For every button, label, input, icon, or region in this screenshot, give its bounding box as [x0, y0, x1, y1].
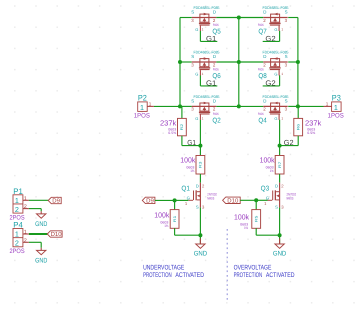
- svg-text:PROTECTION: PROTECTION: [234, 272, 263, 279]
- svg-text:G: G: [195, 116, 198, 121]
- svg-text:Q7: Q7: [258, 28, 267, 35]
- svg-text:0.5%: 0.5%: [307, 131, 315, 135]
- svg-text:S: S: [191, 10, 194, 15]
- svg-text:0.5%: 0.5%: [168, 131, 176, 135]
- svg-text:R7: R7: [278, 162, 282, 168]
- svg-text:NMOS: NMOS: [287, 196, 294, 200]
- svg-text:1: 1: [202, 72, 204, 76]
- svg-text:1%: 1%: [270, 169, 274, 173]
- svg-text:D: D: [263, 99, 266, 104]
- svg-text:100k: 100k: [154, 211, 169, 220]
- svg-text:G: G: [274, 71, 277, 76]
- svg-text:1: 1: [15, 230, 19, 239]
- svg-text:FDD4685L-F085: FDD4685L-F085: [263, 50, 289, 54]
- svg-text:PMOS: PMOS: [258, 68, 264, 72]
- svg-text:G2: G2: [265, 34, 275, 43]
- svg-text:FDD4685L-F085: FDD4685L-F085: [263, 6, 289, 10]
- svg-text:D10: D10: [227, 198, 239, 205]
- svg-text:D: D: [275, 184, 278, 189]
- svg-text:FDD4685L-F085: FDD4685L-F085: [194, 95, 220, 99]
- svg-text:GND: GND: [194, 251, 208, 258]
- svg-text:G1: G1: [187, 138, 196, 147]
- svg-text:D: D: [263, 10, 266, 15]
- svg-text:Q6: Q6: [212, 73, 221, 80]
- svg-text:GND: GND: [35, 258, 47, 265]
- svg-text:ACTIVATED: ACTIVATED: [266, 272, 295, 279]
- svg-text:2: 2: [15, 205, 19, 214]
- svg-text:FDD4685L-F085: FDD4685L-F085: [194, 6, 220, 10]
- svg-text:1: 1: [326, 101, 329, 106]
- svg-text:PMOS: PMOS: [213, 23, 219, 27]
- svg-text:2: 2: [24, 238, 27, 244]
- svg-text:P3: P3: [332, 94, 341, 103]
- svg-text:G: G: [274, 27, 277, 32]
- svg-text:100k: 100k: [180, 156, 195, 165]
- svg-text:Q8: Q8: [258, 73, 267, 80]
- svg-text:237k: 237k: [160, 118, 177, 127]
- svg-text:P4: P4: [13, 221, 23, 230]
- svg-text:OVERVOLTAGE: OVERVOLTAGE: [234, 265, 272, 272]
- svg-text:1: 1: [281, 28, 283, 32]
- svg-text:1: 1: [281, 72, 283, 76]
- svg-text:1: 1: [149, 101, 152, 106]
- svg-text:GND: GND: [35, 221, 47, 228]
- svg-text:NMOS: NMOS: [207, 196, 214, 200]
- svg-text:D10: D10: [51, 231, 63, 238]
- svg-text:FDD4685L-F085: FDD4685L-F085: [194, 50, 220, 54]
- svg-text:R3: R3: [199, 162, 203, 168]
- svg-text:1POS: 1POS: [134, 113, 150, 120]
- svg-text:S: S: [196, 204, 199, 209]
- svg-text:R1: R1: [173, 216, 177, 222]
- svg-text:1POS: 1POS: [328, 113, 344, 120]
- svg-text:D: D: [263, 54, 266, 59]
- svg-text:1: 1: [24, 230, 27, 236]
- svg-text:1%: 1%: [244, 226, 248, 230]
- svg-text:S: S: [191, 99, 194, 104]
- svg-text:D: D: [213, 99, 216, 104]
- svg-text:G1: G1: [206, 34, 216, 43]
- svg-text:G: G: [195, 71, 198, 76]
- svg-text:100k: 100k: [234, 213, 249, 222]
- svg-text:2: 2: [15, 239, 19, 248]
- svg-text:D9: D9: [146, 198, 154, 205]
- svg-text:R6: R6: [296, 124, 300, 130]
- svg-text:P1: P1: [13, 187, 23, 196]
- svg-text:D: D: [196, 184, 199, 189]
- svg-text:G: G: [195, 27, 198, 32]
- svg-text:ACTIVATED: ACTIVATED: [175, 272, 204, 279]
- svg-text:1: 1: [24, 196, 27, 202]
- svg-text:D: D: [213, 54, 216, 59]
- svg-text:D9: D9: [52, 198, 60, 205]
- svg-text:Q4: Q4: [258, 117, 267, 124]
- svg-text:1%: 1%: [190, 169, 194, 173]
- svg-text:G2: G2: [265, 79, 275, 88]
- svg-text:GND: GND: [273, 251, 287, 258]
- svg-text:R5: R5: [254, 216, 258, 222]
- svg-text:G2: G2: [284, 138, 294, 147]
- svg-text:Q1: Q1: [181, 185, 190, 192]
- svg-text:G: G: [274, 116, 277, 121]
- svg-text:1: 1: [281, 117, 283, 121]
- svg-text:P2: P2: [138, 94, 147, 103]
- svg-text:S: S: [285, 54, 288, 59]
- svg-text:1: 1: [202, 117, 204, 121]
- svg-text:1: 1: [140, 103, 144, 112]
- svg-text:S: S: [285, 99, 288, 104]
- svg-text:PMOS: PMOS: [213, 112, 219, 116]
- svg-text:PMOS: PMOS: [258, 112, 264, 116]
- svg-text:G1: G1: [206, 79, 216, 88]
- svg-text:R2: R2: [180, 124, 184, 130]
- svg-text:S: S: [285, 10, 288, 15]
- svg-text:2POS: 2POS: [10, 248, 25, 255]
- svg-text:Q2: Q2: [212, 117, 221, 124]
- svg-text:PMOS: PMOS: [258, 23, 264, 27]
- svg-text:1: 1: [202, 28, 204, 32]
- svg-text:S: S: [191, 54, 194, 59]
- svg-text:PMOS: PMOS: [213, 68, 219, 72]
- svg-text:Q3: Q3: [261, 185, 270, 192]
- svg-text:237k: 237k: [305, 118, 322, 127]
- svg-text:1%: 1%: [164, 224, 168, 228]
- svg-text:D: D: [213, 10, 216, 15]
- svg-text:FDD4685L-F085: FDD4685L-F085: [263, 95, 289, 99]
- svg-text:S: S: [275, 204, 278, 209]
- svg-text:1: 1: [334, 103, 338, 112]
- svg-text:2: 2: [24, 204, 27, 210]
- svg-text:1: 1: [15, 196, 19, 205]
- svg-text:Q5: Q5: [212, 28, 221, 35]
- svg-text:100k: 100k: [260, 156, 275, 165]
- svg-text:PROTECTION: PROTECTION: [143, 272, 172, 279]
- svg-text:UNDERVOLTAGE: UNDERVOLTAGE: [143, 265, 185, 272]
